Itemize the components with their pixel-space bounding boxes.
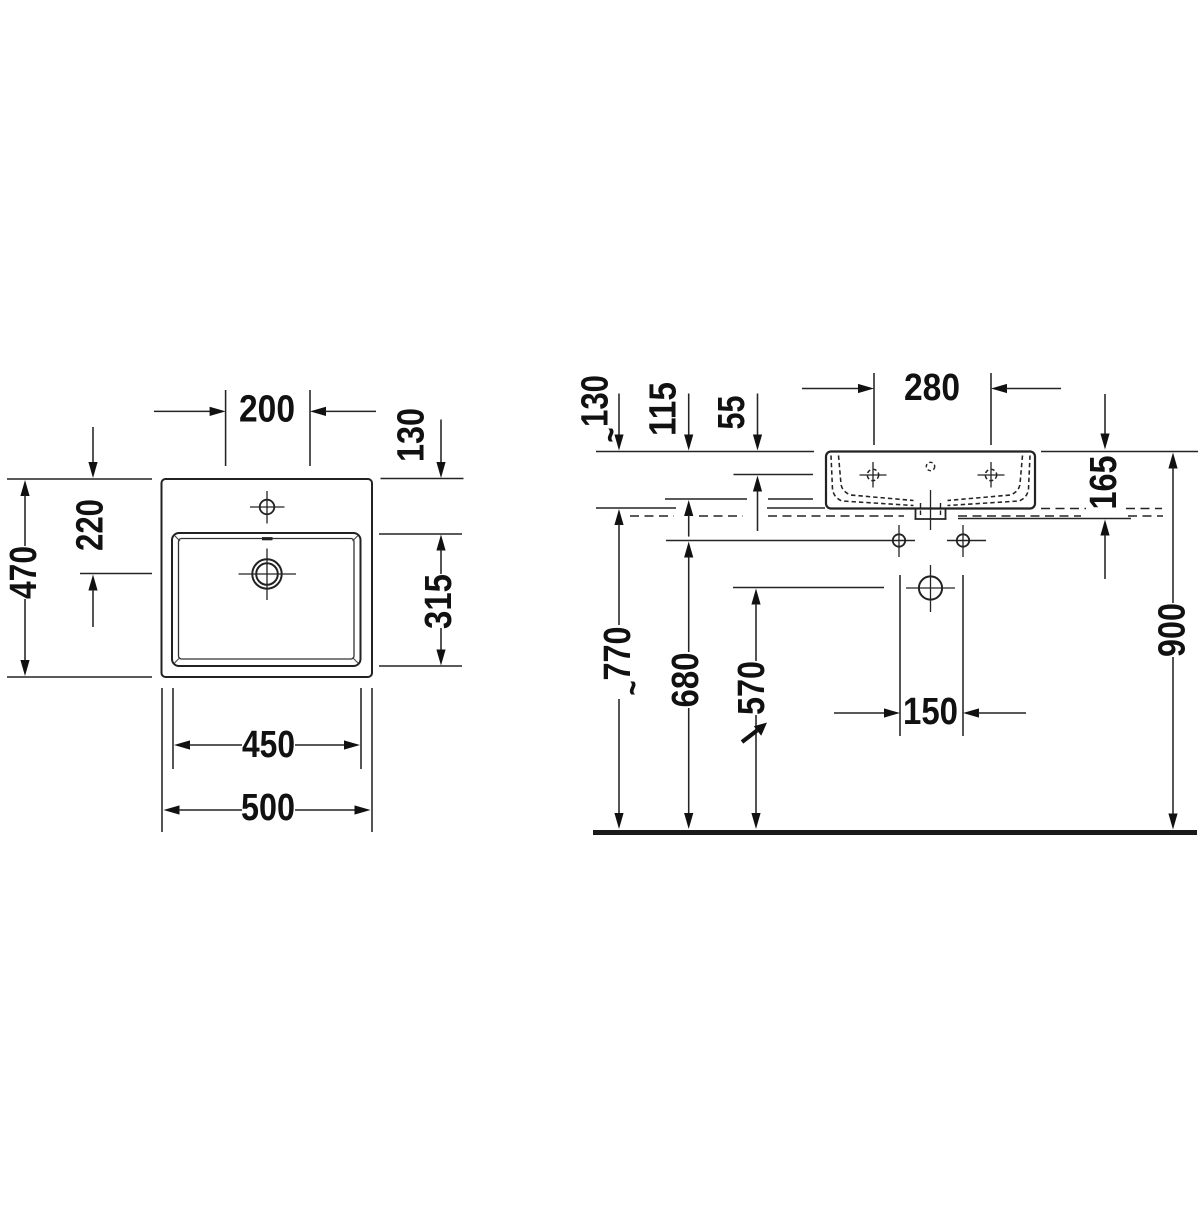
svg-text:165: 165 (1083, 456, 1125, 510)
svg-text:55: 55 (711, 396, 753, 430)
svg-text:450: 450 (242, 724, 295, 766)
svg-text:220: 220 (70, 499, 112, 551)
svg-text:~: ~ (612, 681, 653, 696)
svg-text:130: 130 (391, 408, 433, 462)
svg-text:150: 150 (903, 691, 958, 733)
svg-text:200: 200 (239, 389, 295, 431)
svg-text:570: 570 (731, 661, 773, 715)
svg-text:280: 280 (904, 367, 960, 409)
svg-text:500: 500 (241, 787, 295, 829)
svg-text:470: 470 (3, 546, 45, 599)
svg-text:900: 900 (1152, 603, 1194, 657)
svg-text:130: 130 (575, 375, 617, 427)
svg-text:115: 115 (643, 382, 685, 436)
svg-text:770: 770 (597, 627, 639, 681)
svg-text:~: ~ (590, 428, 631, 443)
svg-text:680: 680 (665, 653, 707, 708)
svg-text:315: 315 (418, 574, 460, 629)
